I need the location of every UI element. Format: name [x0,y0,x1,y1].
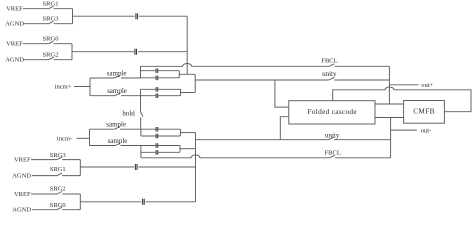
wire bracket caps2 right [180,89,182,95]
capacitor C_dac4 [143,199,145,205]
wire cap lineF [141,151,180,153]
wire join group3 [79,160,81,176]
switch SRG0b [57,207,62,210]
wire T up to opamp in2 [280,117,289,140]
wire vertical node join [194,74,196,92]
wire vertical node join bottom [195,133,197,202]
capacitor Cs4a [156,143,158,148]
capacitor C_dac3 [135,164,137,170]
wire [23,43,49,45]
wire [32,175,57,177]
svg-text:CMFB: CMFB [413,107,434,116]
wire group4 output [80,201,141,203]
svg-text:SRG3: SRG3 [43,15,59,22]
wire [32,209,57,211]
switch FBCL top [329,64,334,67]
wire [62,209,80,211]
svg-text:AGND: AGND [5,56,24,63]
svg-text:sample: sample [106,121,126,129]
wire node to vertical [180,148,196,150]
svg-text:sample: sample [108,137,128,145]
svg-text:FBCL: FBCL [325,149,341,156]
wire [62,175,80,177]
svg-text:Folded cascode: Folded cascode [308,107,357,116]
wire [120,128,141,130]
switch hold [141,112,144,117]
block U2 CMFB [404,101,445,124]
switch unity top [329,78,334,81]
svg-text:SRG2: SRG2 [43,51,59,58]
wire [31,159,57,161]
wire [54,23,73,25]
wire [54,59,73,61]
capacitor Cs2a [156,87,158,92]
wire unity bottom [196,139,329,141]
wire node to vertical [179,73,195,75]
wire [74,86,90,88]
wire cap line3 [141,77,180,79]
svg-text:unity: unity [322,70,337,78]
wire vertical out- net [390,118,392,158]
svg-text:AGND: AGND [5,20,24,27]
svg-text:SRG3: SRG3 [50,152,66,159]
wire opamp out+ to CMFB [375,103,404,105]
wire bar caps1 left [140,66,142,78]
wire node to vertical [180,132,195,134]
wire group1 output [73,15,135,17]
wire [31,193,57,195]
wire [90,95,115,97]
wire [121,77,141,79]
switch sample1 [114,76,120,78]
switch SRG3 [49,21,54,24]
capacitor Cs3a [156,127,158,132]
capacitor Cs4b [156,150,158,155]
capacitor Cs1a [156,69,158,74]
switch SRG2b [57,192,62,195]
wire [23,8,49,10]
svg-text:sample: sample [107,69,127,77]
wire [146,201,196,203]
svg-text:AGND: AGND [12,172,31,179]
wire CMFB output loop [333,87,471,112]
wire [24,23,49,25]
wire cap lineC [141,128,181,130]
capacitor Cs3b [156,134,158,139]
wire [335,157,391,159]
wire [139,15,187,17]
switch sample4 [116,143,121,146]
svg-text:SRG1: SRG1 [50,166,66,173]
op-amp U1 Folded cascode [289,101,375,124]
wire FBCL bottom from caps [141,155,330,158]
wire [90,77,114,79]
wire [62,193,80,195]
wire opamp out- to CMFB [375,117,404,119]
wire [335,65,390,67]
wire node to vertical [181,92,196,94]
svg-text:VREF: VREF [6,5,23,12]
wire cap lineE [141,145,180,147]
svg-text:hold: hold [122,109,135,117]
wire cap lineB [141,95,181,97]
wire T down to opamp in1 [275,80,289,107]
capacitor C_dac1 [136,13,138,19]
wire bracket caps1 right [178,71,180,78]
svg-text:SRG2: SRG2 [50,186,66,193]
switch FBCL bottom [330,155,335,158]
wire hold vertical lower [140,117,142,129]
svg-text:out+: out+ [421,82,433,89]
wire bar caps4 left [140,146,142,158]
wire [121,95,140,97]
svg-text:incm+: incm+ [55,84,72,91]
wire split bar [89,129,91,145]
switch SRG0 [49,41,54,44]
wire out- stub [391,129,417,131]
wire group3 output [80,166,134,168]
wire [334,79,389,81]
wire [90,128,115,130]
svg-text:VREF: VREF [14,156,31,163]
svg-text:VREF: VREF [14,191,31,198]
wire [54,8,73,10]
svg-text:SRG0: SRG0 [50,202,66,209]
wire group2 output [72,51,134,53]
svg-text:SRG0: SRG0 [43,35,59,42]
wire join group2 [71,44,73,60]
wire FBCL top from caps [141,64,330,67]
svg-text:VREF: VREF [6,40,23,47]
wire bar caps3 left [140,129,142,136]
wire bracket caps3 right [179,129,181,136]
svg-text:sample: sample [107,87,127,95]
wire cap lineA [141,88,181,90]
wire split bar [89,78,91,96]
svg-text:incm-: incm- [57,135,72,142]
wire vertical to sample node [186,16,188,74]
svg-text:AGND: AGND [12,207,31,214]
wire bracket caps4 right [179,146,181,153]
svg-text:out-: out- [421,127,431,134]
switch SRG1b [57,173,62,176]
wire join group4 [79,194,81,210]
wire [121,145,141,147]
svg-text:unity: unity [325,131,340,139]
wire [24,59,49,61]
wire unity top [195,79,329,81]
wire out+ stub [389,84,418,86]
wire bar caps2 left [140,89,142,95]
wire [90,145,116,147]
switch unity bottom [329,137,334,140]
wire [77,137,90,139]
wire [54,43,73,45]
wire [62,159,80,161]
wire cap lineD [141,135,181,137]
switch sample3 [115,127,120,130]
switch SRG1 [49,6,54,9]
wire vertical out+ net [388,66,390,104]
wire join group1 [72,9,74,24]
capacitor Cs1b [156,76,158,81]
switch sample2 [115,93,121,95]
svg-text:FBCL: FBCL [321,58,337,65]
svg-text:SRG1: SRG1 [43,0,59,7]
wire hold vertical upper [140,96,142,112]
wire [139,166,196,168]
wire [138,51,187,53]
switch SRG2 [49,57,54,60]
switch SRG3b [57,157,62,160]
capacitor Cs2b [156,94,158,99]
wire cap line2 [141,70,180,72]
wire [334,139,391,141]
capacitor C_dac2 [135,49,137,55]
